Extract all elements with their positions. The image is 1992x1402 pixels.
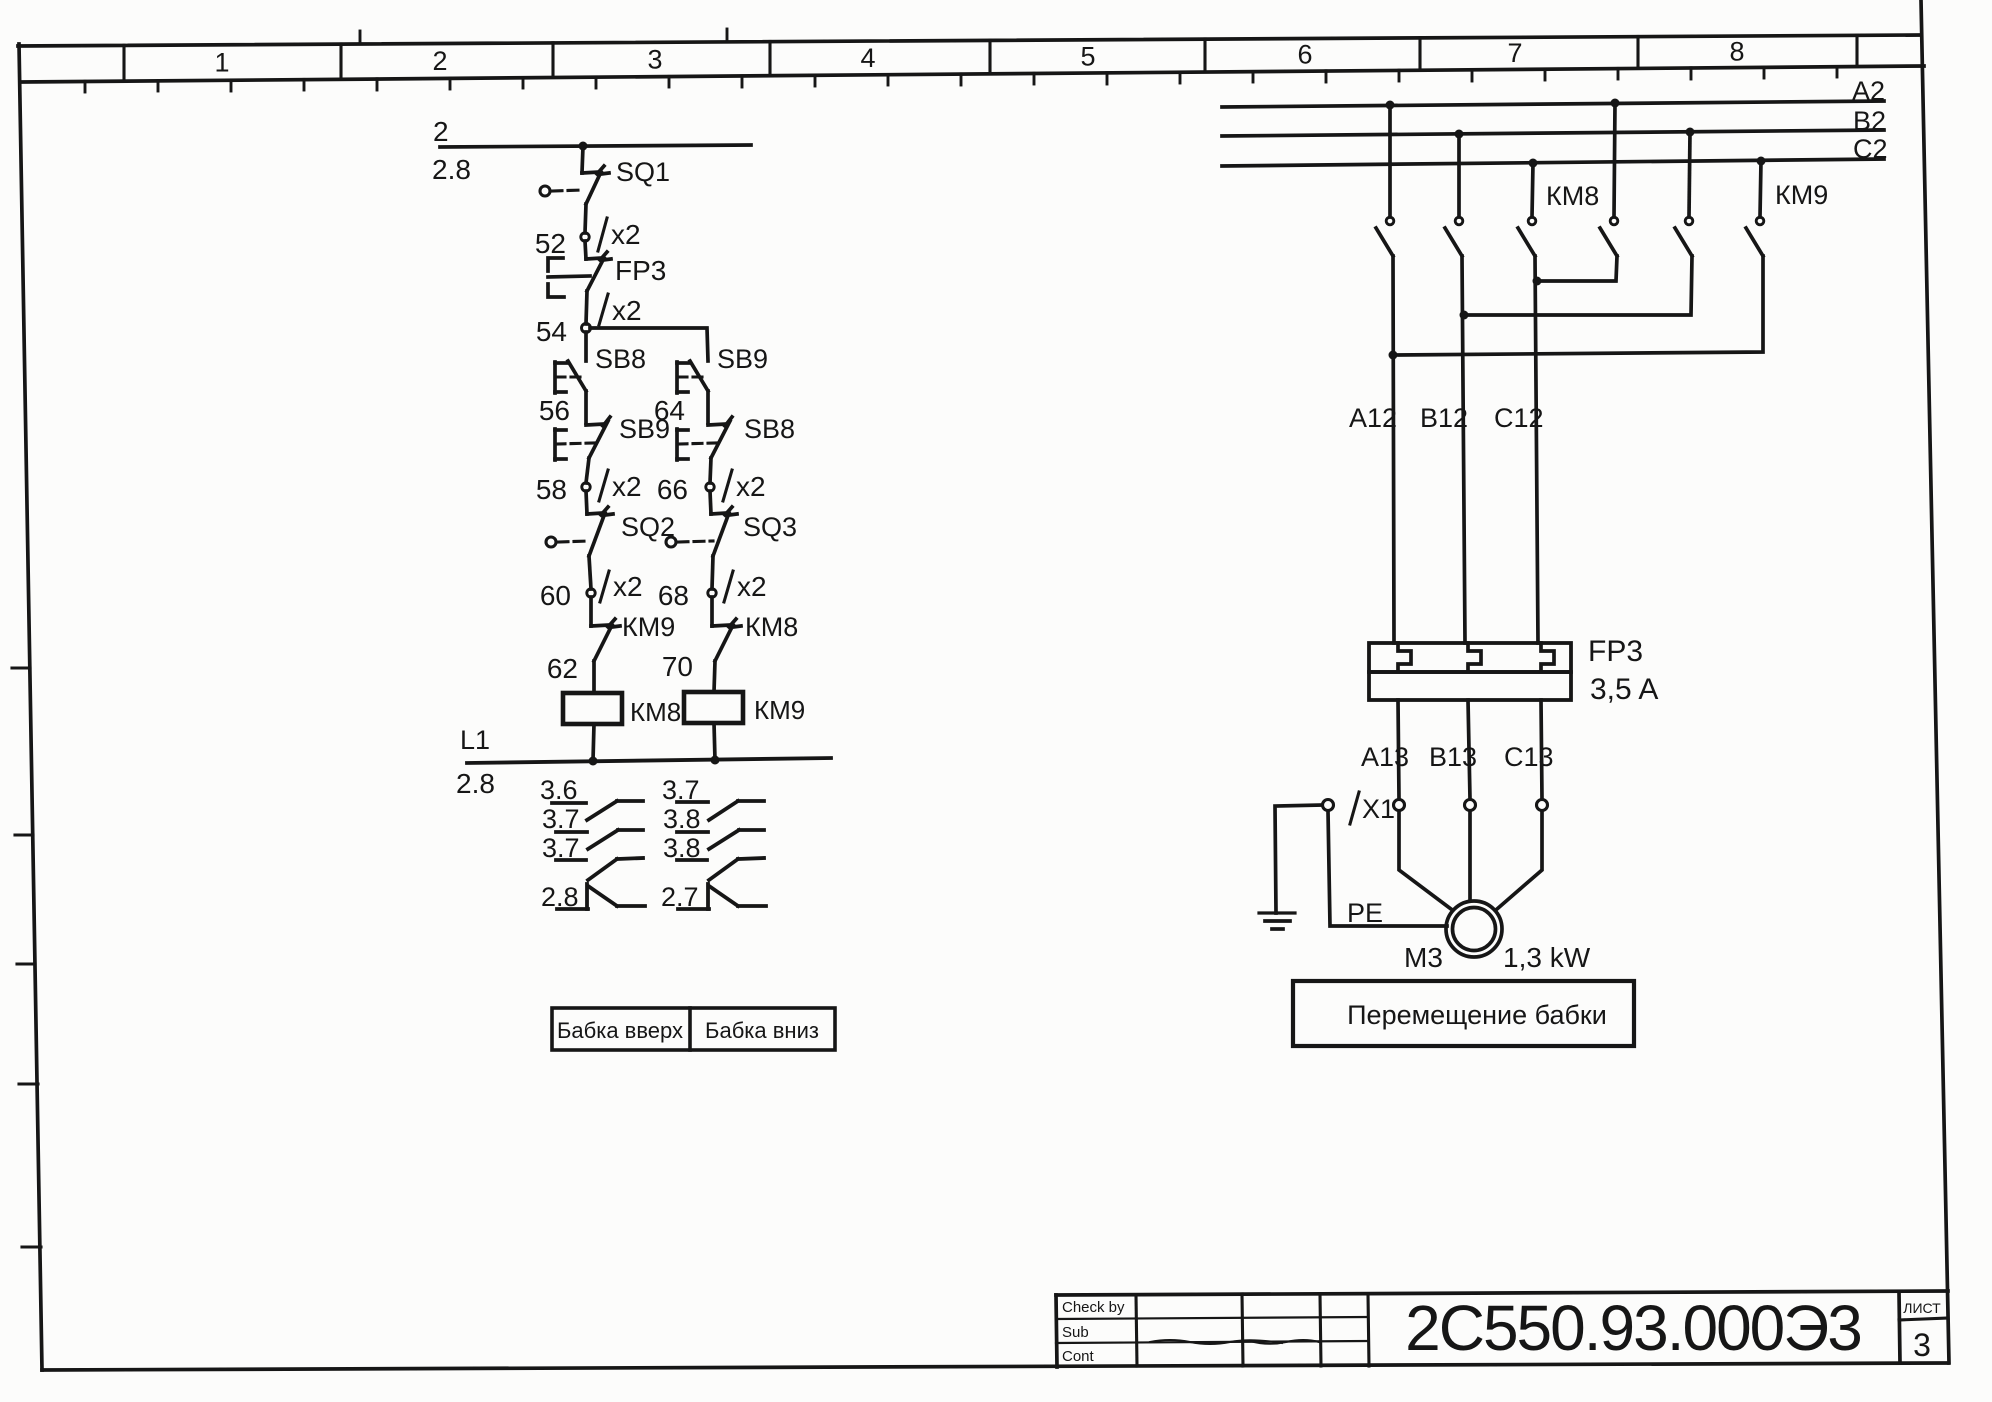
contactor KM9 pole 6 [1746,161,1764,256]
svg-text:4: 4 [860,43,875,73]
svg-text:5: 5 [1080,41,1095,71]
wire X1-B to motor [1468,811,1472,900]
svg-text:2: 2 [432,46,447,76]
svg-text:Перемещение бабки: Перемещение бабки [1347,1000,1607,1030]
left border [19,44,42,1370]
wire: SB9nc to node 58 [586,458,589,483]
svg-text:Sub: Sub [1062,1324,1089,1341]
label /X1 [1350,792,1395,824]
svg-text:SB8: SB8 [595,344,646,374]
svg-text:2: 2 [433,116,449,147]
svg-text:КМ8: КМ8 [630,697,681,727]
node 60 terminal [587,589,595,597]
ref contact 3.7 [556,830,643,849]
label /x2 (node 54) [599,294,642,326]
function box Бабка вверх / Бабка вниз [552,1008,835,1050]
svg-text:Check by: Check by [1062,1299,1125,1316]
svg-text:1: 1 [214,48,229,78]
svg-text:В13: В13 [1429,742,1477,772]
fuse element C [1541,643,1554,671]
wire: KM9 coil to bus L1 [714,723,715,760]
wire pole4 to C12 [1537,256,1617,281]
svg-text:М3: М3 [1404,942,1443,973]
svg-text:ЛИСТ: ЛИСТ [1903,1300,1941,1316]
junction A2/pole1 [1386,101,1395,110]
strip cell dividers [124,35,1857,81]
label /x2 (node 66) [723,470,766,502]
coil KM9 [684,692,743,723]
wire: KM8 contact to KM9 coil [714,661,715,692]
svg-text:КМ9: КМ9 [754,695,805,725]
wire pole2 down (B12) [1462,256,1465,643]
connector X1 pin B [1465,800,1476,811]
svg-text:SQ1: SQ1 [616,157,670,187]
svg-text:8: 8 [1729,37,1744,67]
wire: node 60 to KM9 contact [589,597,593,626]
title block row lines [1056,1317,1368,1343]
title block column lines [1136,1294,1369,1366]
wire: SQ3 to node 68 [712,556,713,589]
wire pole6 to A12 [1393,256,1763,355]
wire: node 58 to SQ2 [586,491,587,514]
svg-text:3: 3 [1913,1327,1931,1363]
wire pole3 down (C12) [1535,256,1538,643]
junction pole6/A12 [1389,351,1398,360]
svg-text:Бабка вверх: Бабка вверх [557,1018,683,1043]
svg-text:В2: В2 [1853,106,1886,136]
junction KM8 coil on L1 [589,757,598,766]
bus B2 [1222,130,1884,136]
svg-text:L1: L1 [460,725,490,755]
label /x2 (node 68) [724,571,767,602]
function box divider [688,1008,692,1050]
svg-text:x2: x2 [611,219,641,250]
wire pole5 to B12 [1464,256,1692,315]
svg-text:SB8: SB8 [744,414,795,444]
svg-text:FP3: FP3 [1588,635,1643,668]
svg-text:x2: x2 [736,471,766,502]
ref contact 3.6 [552,801,643,820]
svg-text:58: 58 [536,474,567,505]
svg-text:68: 68 [658,580,689,611]
connector X1 pin C [1537,800,1548,811]
ref contact 3.7 (second) [556,858,643,880]
contactor KM8 pole 1 [1376,105,1394,256]
title block top edge [1056,1291,1948,1295]
svg-text:X1: X1 [1362,794,1395,824]
svg-text:2.8: 2.8 [456,768,495,799]
sheet cell divider [1899,1292,1900,1363]
svg-text:КМ8: КМ8 [1546,181,1599,211]
svg-text:3: 3 [647,44,662,74]
svg-text:52: 52 [535,228,566,259]
wire: FP3 to node 54 [586,291,587,324]
svg-text:SQ3: SQ3 [743,512,797,542]
svg-text:66: 66 [657,474,688,505]
svg-text:Cont: Cont [1062,1348,1095,1365]
svg-text:6: 6 [1297,40,1312,70]
node 66 terminal [706,483,714,491]
wire: node 54 down [584,332,588,361]
junction C2/pole6 [1757,157,1766,166]
svg-text:Бабка вниз: Бабка вниз [705,1018,819,1043]
junction B2/pole5 [1686,128,1695,137]
contactor KM8 pole 2 [1445,134,1463,256]
wire: SB8nc to node 66 [710,458,711,483]
wire: SQ1 to node 52 [585,204,586,233]
svg-text:КМ8: КМ8 [745,612,798,642]
svg-text:SB9: SB9 [619,414,670,444]
svg-text:x2: x2 [612,471,642,502]
push button SB9 (left, NC) [555,417,610,460]
wire: KM8 coil to bus L1 [593,724,594,761]
top strip lower line [22,66,1924,82]
strip ruler ticks below [85,67,1837,93]
ref contact 2.7 (NC) [678,884,766,909]
junction KM9 coil on L1 [711,756,720,765]
limit switch SQ1 [540,166,609,204]
bus C2 [1222,159,1884,166]
svg-text:1,3 kW: 1,3 kW [1503,942,1591,973]
wire: KM9 contact to KM8 coil [592,661,596,693]
wire: bus 2 [440,145,751,147]
svg-text:2.8: 2.8 [432,154,471,185]
connector X1 pin A [1394,800,1405,811]
svg-text:x2: x2 [737,571,767,602]
fuse FP3 top box [1369,643,1571,672]
title block hand squiggle [1150,1340,1319,1344]
bottom border [42,1363,1948,1370]
title block small texts [1062,1299,1125,1365]
wire X1 to ground [1275,805,1322,913]
sheet cell row line [1899,1318,1948,1320]
push button SB8 (left, NO) [555,361,586,393]
svg-text:FP3: FP3 [615,255,666,286]
svg-text:3.6: 3.6 [540,775,578,805]
top strip upper line [18,35,1921,46]
thermal contact FP3 [548,252,611,297]
wire PE to motor [1328,811,1447,926]
ref contact 3.8 (second) [677,858,764,880]
function box Перемещение бабки [1293,981,1634,1046]
fold ticks above strip [359,31,362,44]
junction pole4/C12 [1533,277,1542,286]
svg-text:A2: A2 [1852,76,1885,106]
label /x2 (node 52) [598,218,641,251]
wire: SQ2 to node 60 [589,556,591,589]
push button SB9 (right, NO) [677,361,708,393]
limit switch SQ2 [546,507,613,556]
right border [1921,0,1949,1363]
svg-text:2С550.93.000Э3: 2С550.93.000Э3 [1405,1292,1861,1364]
strip numbers [214,37,1744,78]
wire X1-A to motor [1399,811,1451,909]
svg-text:С13: С13 [1504,742,1554,772]
svg-text:В12: В12 [1420,403,1468,433]
wire: bus to SQ1 [582,146,583,173]
svg-text:A13: A13 [1361,742,1409,772]
wire fuse to X1-C [1541,700,1542,799]
ref contact 3.7 (KM9) [677,801,764,820]
junction pole5/B12 [1460,311,1469,320]
ground [1259,913,1295,929]
svg-text:7: 7 [1507,38,1522,68]
svg-text:70: 70 [662,651,693,682]
svg-text:КМ9: КМ9 [622,612,675,642]
node 52 terminal [581,233,589,241]
node 68 terminal [708,589,716,597]
svg-text:3.7: 3.7 [542,804,580,834]
TITLE BLOCK [1056,1291,1948,1367]
svg-text:КМ9: КМ9 [1775,180,1828,210]
ref contact 2.8 (NC) [557,884,645,909]
svg-text:SB9: SB9 [717,344,768,374]
left border ticks [12,668,41,1247]
node 58 terminal [582,483,590,491]
junction A2/pole4 [1611,99,1620,108]
ref contact 3.8 [677,830,764,849]
svg-text:x2: x2 [613,571,643,602]
label /x2 (node 58) [599,470,642,502]
wire: SB8 to SB9nc (left col) [584,391,588,423]
wire: SB9 to SB8nc (right col) [706,391,710,423]
fuse element A [1398,643,1411,671]
svg-text:x2: x2 [612,295,642,326]
connector X1 pin PE [1323,800,1334,811]
svg-text:PE: PE [1347,898,1383,928]
wire fuse to X1-B [1468,700,1470,799]
title block left edge [1056,1295,1057,1367]
svg-text:С2: С2 [1853,134,1888,164]
fuse FP3 bottom box [1369,672,1571,700]
junction B2/pole2 [1455,130,1464,139]
bus A2 [1222,101,1884,107]
contactor KM8 pole 3 [1518,163,1536,256]
aux contact KM9 [591,619,620,661]
wire: node 52 to FP3 [585,241,586,259]
bus L1 [467,758,831,763]
svg-text:3.8: 3.8 [663,804,701,834]
wire X1-C to motor [1497,811,1542,909]
node 54 terminal [582,324,591,333]
svg-text:3,5 A: 3,5 A [1590,673,1658,706]
wire fuse to X1-A [1398,700,1399,799]
coil KM8 [563,693,622,724]
wire pole1 down (A12) [1393,256,1394,643]
svg-text:60: 60 [540,580,571,611]
junction on bus 2 [579,142,588,151]
label /x2 (node 60) [600,571,643,602]
contactor KM9 pole 5 [1675,132,1693,256]
junction C2/pole3 [1529,159,1538,168]
wire: branch node 54 to right column [590,328,708,361]
fuse element B [1468,643,1481,671]
svg-text:62: 62 [547,653,578,684]
limit switch SQ3 [666,491,737,556]
svg-text:С12: С12 [1494,403,1544,433]
svg-text:A12: A12 [1349,403,1397,433]
contactor KM9 pole 4 [1600,103,1618,256]
motor M3 [1446,901,1502,957]
push button SB8 (right, NC) [677,417,732,460]
aux contact KM8 [712,597,741,661]
svg-text:54: 54 [536,316,567,347]
svg-text:56: 56 [539,395,570,426]
